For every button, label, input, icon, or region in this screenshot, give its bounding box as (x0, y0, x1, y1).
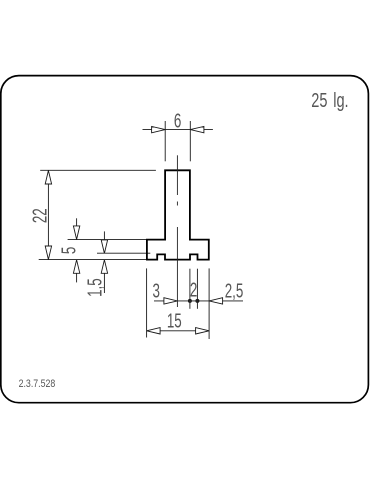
dimension 22: arrow up (45, 171, 51, 185)
svg-text:22: 22 (29, 208, 51, 223)
dimension 5: upper tail (76, 218, 78, 226)
dimension 5: arrow down to flange top (73, 226, 79, 240)
dimension 22: dimension line (47, 171, 49, 260)
svg-text:5: 5 (58, 247, 80, 254)
dimension 15: dimension line (147, 330, 210, 332)
centerline dash 2 (176, 227, 178, 307)
dimension 1,5: arrow up to bottom (101, 260, 107, 274)
chained dimension line 3 / 2 / 2,5 (154, 300, 243, 302)
dimension 2,5: arrow left at flange right (209, 298, 223, 304)
svg-text:lg.: lg. (333, 89, 348, 112)
extension line: bottom (for 22 / 5 / 1.5) (39, 259, 147, 261)
svg-text:6: 6 (174, 110, 181, 132)
extension line: flange left (bottom dims) (146, 268, 148, 337)
svg-text:3: 3 (152, 280, 159, 302)
dimension 6: right extension line (189, 121, 191, 161)
extension line: right notch right edge (196, 269, 198, 309)
dimension 6: left extension line (164, 121, 166, 161)
dimension 6: left arrow (152, 126, 166, 132)
dimension 5: lower tail (76, 273, 78, 282)
centerline dot (176, 202, 178, 206)
svg-text:25: 25 (311, 89, 327, 112)
svg-text:2.3.7.528: 2.3.7.528 (19, 378, 56, 390)
T-profile outline (147, 170, 209, 259)
svg-text:15: 15 (167, 310, 182, 332)
dimension 5: arrow up to bottom (73, 260, 79, 274)
drawing frame (rounded border) (1, 76, 369, 403)
extension line: right notch left edge (189, 269, 191, 309)
dimension 6: dimension line (143, 129, 213, 131)
extension line: stem top (for 22) (40, 169, 156, 171)
extension line: flange right (bottom dims) (208, 268, 210, 339)
dimension 15: arrow left (147, 328, 161, 334)
dimension 2: left dot terminator (189, 300, 192, 303)
extension line: notch top (for 1.5) (97, 252, 150, 254)
dimension 1,5: arrow down to notch top (101, 240, 107, 254)
dimension 1,5: lower tail (103, 273, 105, 293)
dimension 2: right dot terminator (196, 300, 199, 303)
svg-text:2: 2 (190, 279, 197, 301)
dimension 1,5: upper tail (103, 231, 105, 240)
extension line: flange top (for 5) (68, 239, 147, 241)
svg-text:2,5: 2,5 (225, 280, 244, 302)
dimension 15: arrow right (196, 328, 210, 334)
centerline dash 1 (176, 155, 178, 195)
dimension 6: right arrow (190, 126, 204, 132)
svg-text:1,5: 1,5 (84, 278, 106, 297)
dimension 22: arrow down (45, 246, 51, 260)
dimension 3: arrow right at centerline (164, 298, 178, 304)
